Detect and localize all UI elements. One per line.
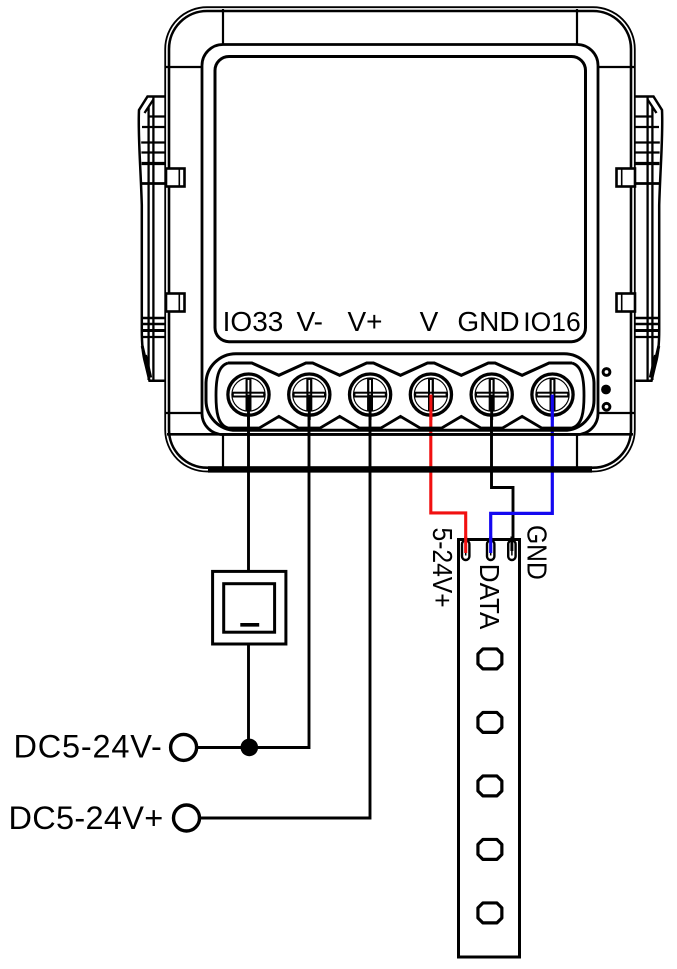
svg-text:5-24V+: 5-24V+ xyxy=(427,528,459,608)
svg-text:V+: V+ xyxy=(347,306,382,337)
svg-text:V-: V- xyxy=(296,306,322,337)
svg-text:DC5-24V+: DC5-24V+ xyxy=(9,800,164,836)
svg-text:DATA: DATA xyxy=(474,564,505,630)
svg-text:IO33: IO33 xyxy=(223,306,284,337)
svg-text:IO16: IO16 xyxy=(523,307,580,337)
svg-text:DC5-24V-: DC5-24V- xyxy=(14,729,163,765)
svg-text:GND: GND xyxy=(521,525,553,580)
svg-text:V: V xyxy=(420,306,439,337)
svg-text:GND: GND xyxy=(457,306,519,337)
